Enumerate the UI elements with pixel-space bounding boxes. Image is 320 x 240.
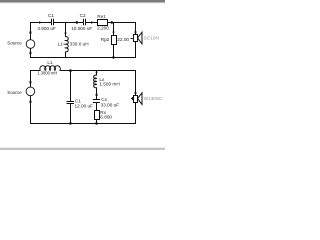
wire: node E down to Lx [96,71,98,76]
svg-text:Rp2: Rp2 [101,37,110,42]
wire: C2 to Re1 [86,22,98,24]
wire: shunt branch down from top rail to L1 [65,23,67,37]
wire: top rail corner down to tweeter [135,22,137,35]
svg-text:Source: Source [7,90,22,95]
wire: node D down to C1 (woofer shunt cap) [70,71,72,102]
svg-text:L1=: L1= [58,42,66,47]
node D (junction dot) [69,69,72,72]
svg-text:2.200: 2.200 [97,26,109,31]
svg-text:12.00 uF: 12.00 uF [75,104,94,109]
capacitor C1 (woofer shunt) [67,102,75,104]
node C (junction dot on bottom rail) [112,56,115,59]
source V1 (tweeter circuit) [26,40,35,49]
inductor L1 (tweeter shunt coil) [65,37,68,52]
bottom rail of tweeter circuit [31,48,136,57]
current arrow on Rp2 branch [112,32,114,35]
svg-text:Source: Source [7,40,22,45]
svg-text:6.800: 6.800 [100,115,112,120]
current arrow on V2 bottom lead [30,101,32,103]
window top edge [0,0,165,2]
svg-text:C2: C2 [80,13,86,18]
wire: woofer top rail corner down to woofer [97,71,136,96]
svg-text:Re1: Re1 [97,14,106,19]
source V2 (woofer circuit) [26,87,35,96]
svg-text:C1: C1 [48,13,54,18]
wire: node B down to Rp2 [113,23,115,36]
current arrow between Lx and Cx [96,94,98,96]
svg-text:330.0 uH: 330.0 uH [70,42,89,47]
capacitor C1 [52,19,54,25]
wire: Rx to bottom rail [96,120,98,124]
polarity minus mark at tweeter [131,38,133,39]
svg-text:1.500 mH: 1.500 mH [99,81,119,86]
current arrow on V1 bottom lead [30,52,32,54]
bottom rail of woofer circuit [31,96,136,124]
capacitor C2 [84,19,86,25]
svg-text:1.3800 mH: 1.3800 mH [37,71,57,76]
window bottom edge [0,146,165,149]
current arrow on top rail [39,21,42,23]
node B (junction dot) [111,21,114,24]
wire: C1 to node A [54,22,77,24]
svg-text:L1: L1 [47,60,53,65]
current arrow on V1 top lead [30,31,32,33]
node G (junction dot on bottom rail) [95,122,98,125]
current arrow on notch branch [95,72,97,75]
current arrow on V2 top lead [30,81,32,83]
wire: Cx to Rx [96,103,98,111]
wire: tweeter to bottom rail corner [135,42,137,59]
wire: node D to node E [71,70,97,72]
svg-text:22.00: 22.00 [117,37,129,42]
node F (junction dot on bottom rail) [69,122,72,125]
svg-text:W130SC: W130SC [144,96,163,101]
inductor Lx (notch coil) [94,75,97,88]
svg-text:33.00 uF: 33.00 uF [101,102,120,107]
capacitor Cx [93,100,100,103]
wire: C1 to bottom rail [70,104,72,124]
wire: Re1 to node B and to tweeter corner [108,22,136,24]
wire: Lx to Cx [96,87,98,99]
svg-text:10.000 uF: 10.000 uF [71,26,92,31]
resistor Re1 [98,20,108,26]
wire: node A to C2 [78,22,84,24]
svg-text:SC10N: SC10N [144,35,159,40]
svg-text:3.900 uF: 3.900 uF [37,26,56,31]
tweeter SC10N [134,32,143,44]
inductor L1 (woofer series coil) [40,66,60,71]
resistor Rx [95,111,100,120]
wire: V1 top lead up to top rail and to C1 [31,23,52,40]
wire: woofer to bottom rail corner [135,103,137,125]
wire: Rp2 to bottom rail [113,45,115,58]
polarity plus mark at woofer [131,92,136,100]
node A (junction dot) [76,21,79,24]
wire: L1 to bottom rail [65,52,67,58]
woofer W130SC [134,93,143,105]
resistor Rp2 [112,36,117,45]
current arrow before Re1 [91,21,94,23]
current arrow on shunt branch [64,33,66,36]
wire: L1 to node D [60,70,71,72]
wire: V2 top lead up to woofer top rail [31,71,41,88]
